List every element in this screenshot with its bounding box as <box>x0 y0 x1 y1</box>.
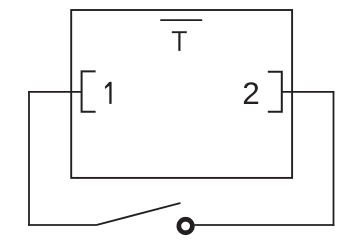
wire: bottom left to switch pivot <box>28 224 96 226</box>
component T: outline box <box>71 10 292 178</box>
label T <box>172 31 187 51</box>
wire: pin 2 to right side <box>282 91 335 93</box>
terminal bracket 2 <box>268 72 282 112</box>
overline for T <box>160 19 202 21</box>
terminal bracket 1 <box>82 71 96 111</box>
switch S blade <box>97 203 181 225</box>
svg-text:2: 2 <box>242 75 260 111</box>
pin label 1 <box>105 82 112 104</box>
switch terminal (open circle) <box>179 219 193 233</box>
wire: pin 1 to left side <box>28 91 82 93</box>
wire: bottom right from terminal <box>195 224 335 226</box>
wire: left vertical <box>28 91 30 226</box>
wire: right vertical <box>333 91 335 226</box>
